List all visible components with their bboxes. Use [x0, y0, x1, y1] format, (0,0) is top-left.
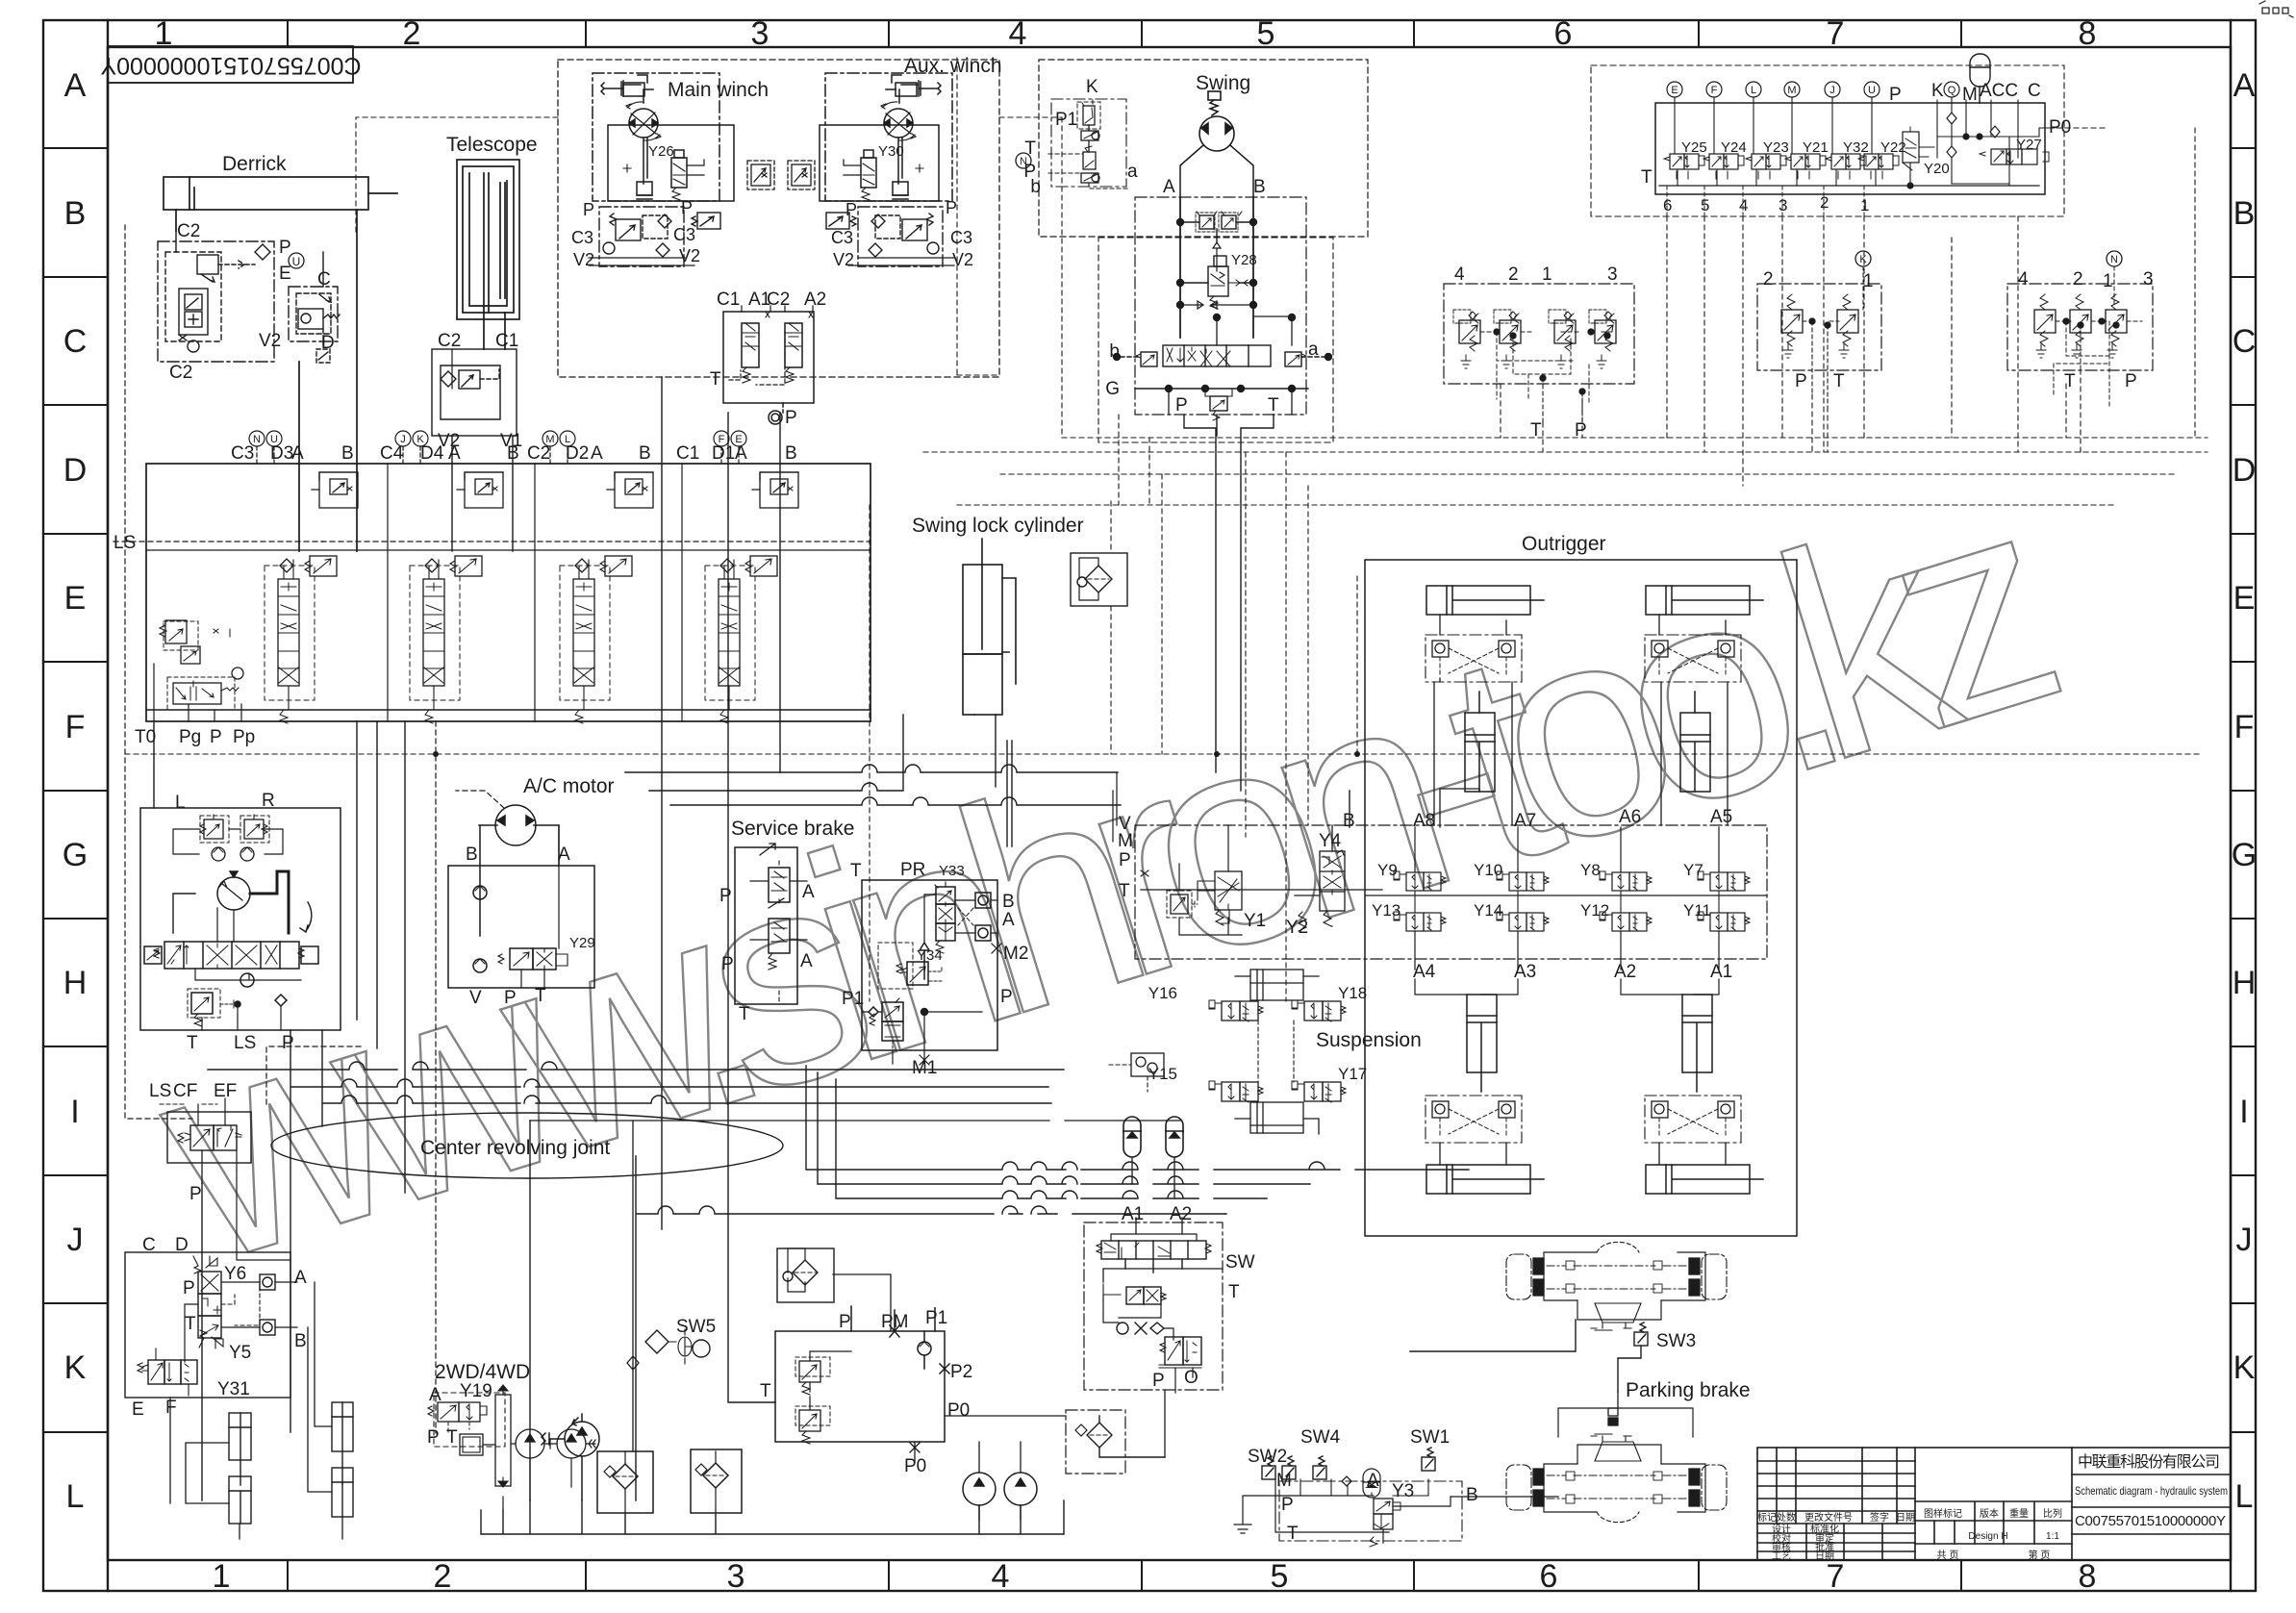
svg-text:F: F — [165, 1398, 177, 1418]
svg-text:C1: C1 — [717, 290, 740, 310]
svg-text:2: 2 — [403, 15, 421, 52]
svg-text:N: N — [253, 434, 261, 445]
svg-text:M1: M1 — [912, 1058, 937, 1078]
svg-text:V2: V2 — [952, 250, 973, 269]
svg-text:SW5: SW5 — [676, 1317, 716, 1337]
steering pump unit — [140, 808, 341, 1030]
aux winch — [820, 73, 952, 201]
main pass-through wires — [154, 542, 1469, 1500]
svg-text:J: J — [400, 434, 406, 445]
svg-text:O: O — [1184, 1368, 1198, 1388]
svg-text:Aux. winch: Aux. winch — [904, 55, 1002, 77]
svg-text:P: P — [1119, 850, 1131, 870]
svg-text:E: E — [2233, 580, 2256, 617]
svg-text:J: J — [2236, 1222, 2253, 1258]
svg-text:A8: A8 — [1413, 811, 1435, 831]
svg-text:P: P — [839, 1312, 851, 1332]
svg-text:A: A — [1367, 1471, 1379, 1491]
svg-text:1: 1 — [1863, 271, 1874, 291]
svg-text:Schematic diagram - hydraulic: Schematic diagram - hydraulic system — [2075, 1484, 2228, 1498]
svg-text:I: I — [2239, 1094, 2248, 1130]
svg-text:P1: P1 — [925, 1308, 947, 1328]
valve Y28 — [1214, 256, 1226, 266]
svg-text:SW4: SW4 — [1300, 1427, 1341, 1448]
svg-text:SW: SW — [1225, 1252, 1255, 1273]
manifold spool sections — [265, 472, 358, 723]
svg-text:A: A — [429, 1385, 442, 1405]
K pilot box — [1016, 99, 1127, 189]
svg-text:P: P — [1175, 395, 1188, 416]
winch motor M2 — [884, 109, 913, 138]
valve Y22 — [1858, 154, 1899, 179]
outrigger jack cylinder upper right — [1680, 692, 1710, 792]
valve Y30 — [861, 158, 876, 188]
svg-text:T0: T0 — [135, 727, 156, 747]
svg-text:5: 5 — [1701, 196, 1709, 214]
svg-text:C4: C4 — [380, 443, 404, 464]
svg-text:M: M — [1276, 1471, 1292, 1491]
relief group 2 (2 K 1) — [1757, 251, 1881, 407]
swing pilot enclosure — [1039, 60, 1368, 237]
svg-text:P: P — [210, 727, 222, 747]
svg-text:K: K — [64, 1349, 87, 1386]
winch brake cylinder — [601, 81, 641, 96]
mid valve — [1126, 1287, 1144, 1304]
swing lock cylinder — [963, 539, 1016, 787]
K Q M ACC C drops — [1937, 97, 2018, 184]
svg-text:E: E — [279, 264, 291, 284]
svg-text:2: 2 — [1820, 193, 1829, 212]
valve Y4 — [1295, 825, 1345, 926]
svg-text:8: 8 — [2079, 15, 2097, 52]
pressure switch SW3 — [1634, 1323, 1648, 1346]
svg-text:E: E — [1671, 85, 1678, 96]
brake charge block PR Y33 Y34 — [862, 880, 1001, 1065]
svg-text:Y9: Y9 — [1377, 861, 1398, 879]
svg-text:K: K — [1086, 77, 1098, 97]
svg-text:PM: PM — [881, 1312, 909, 1332]
svg-text:T: T — [1228, 1282, 1240, 1302]
svg-text:L: L — [66, 1478, 85, 1515]
left pump + filters — [542, 1121, 742, 1513]
svg-text:T: T — [1268, 395, 1279, 416]
relief valve 1 — [1549, 310, 1576, 368]
svg-text:Outrigger: Outrigger — [1522, 533, 1606, 555]
svg-text:A: A — [800, 951, 813, 971]
svg-text:P: P — [1281, 1495, 1294, 1515]
svg-text:A1: A1 — [1122, 1204, 1144, 1224]
svg-text:C2: C2 — [527, 443, 550, 464]
svg-text:比列: 比列 — [2043, 1507, 2062, 1520]
svg-text:J: J — [67, 1222, 84, 1258]
main winch — [593, 73, 734, 201]
svg-text:5: 5 — [1271, 1558, 1289, 1595]
svg-text:4: 4 — [1454, 265, 1465, 285]
svg-text:PR: PR — [900, 860, 925, 880]
svg-text:C00755701510000000Y: C00755701510000000Y — [2075, 1513, 2226, 1529]
svg-text:H: H — [63, 965, 88, 1001]
svg-text:Y10: Y10 — [1474, 861, 1502, 879]
svg-text:1: 1 — [213, 1558, 231, 1595]
svg-text:Y26: Y26 — [648, 143, 674, 160]
outrigger horizontal cylinder RL — [1426, 1165, 1544, 1194]
svg-text:C3: C3 — [231, 443, 254, 464]
valve Y31 — [148, 1360, 164, 1384]
svg-text:P: P — [2125, 371, 2137, 391]
pressure switch SW2 — [1262, 1456, 1275, 1479]
svg-text:C: C — [142, 1235, 156, 1255]
svg-text:T: T — [760, 1381, 771, 1401]
D-row pilot dashed bus — [356, 58, 2208, 1001]
svg-text:B: B — [1466, 1485, 1478, 1505]
valve Y29 — [510, 948, 533, 970]
svg-text:Y5: Y5 — [229, 1343, 251, 1363]
svg-text:T: T — [535, 986, 546, 1006]
corner printer marks — [2259, 1, 2293, 17]
front axle (parking brake) — [1506, 1434, 1727, 1523]
telescope cylinder — [457, 160, 519, 349]
svg-text:ACC: ACC — [1980, 81, 2018, 101]
svg-text:Y8: Y8 — [1580, 861, 1601, 879]
svg-text:T: T — [446, 1427, 458, 1448]
svg-text:D4: D4 — [420, 443, 444, 464]
svg-text:A1: A1 — [1710, 962, 1732, 982]
svg-text:C3: C3 — [673, 225, 695, 244]
svg-text:Y7: Y7 — [1683, 861, 1703, 879]
svg-text:A5: A5 — [1710, 807, 1732, 827]
svg-text:P2: P2 — [950, 1362, 972, 1382]
svg-text:图样标记: 图样标记 — [1924, 1507, 1962, 1520]
svg-text:处数: 处数 — [1777, 1511, 1796, 1524]
svg-text:1: 1 — [2103, 271, 2113, 291]
left section grid — [1757, 1460, 1915, 1462]
svg-text:4: 4 — [2018, 269, 2029, 290]
svg-text:A: A — [591, 443, 603, 464]
valve Y32 — [1826, 154, 1866, 179]
svg-text:M: M — [545, 434, 554, 445]
main manifold block (rows D-F) — [146, 464, 870, 721]
pilot line + check — [924, 895, 936, 943]
svg-text:Service brake: Service brake — [731, 818, 854, 840]
svg-text:2: 2 — [1508, 265, 1519, 285]
svg-text:P: P — [946, 198, 957, 217]
suspension valves — [1109, 970, 1346, 1134]
svg-text:签字: 签字 — [1870, 1511, 1889, 1524]
svg-text:Q: Q — [1948, 85, 1956, 96]
svg-text:R: R — [262, 791, 275, 811]
svg-text:P: P — [681, 198, 693, 217]
top-right pilot valve block — [1591, 65, 2064, 216]
svg-text:V2: V2 — [679, 246, 700, 265]
svg-text:8: 8 — [2079, 1558, 2097, 1595]
svg-text:N: N — [2110, 254, 2118, 265]
svg-text:B: B — [1253, 177, 1266, 197]
valve Y18 — [1292, 1000, 1346, 1021]
svg-text:G: G — [2232, 837, 2257, 873]
derrick lock valve block — [158, 231, 340, 363]
svg-text:7: 7 — [1827, 15, 1845, 52]
svg-text:C: C — [63, 323, 88, 360]
svg-text:B: B — [2233, 195, 2256, 232]
svg-text:标记: 标记 — [1757, 1512, 1777, 1524]
center revolving joint ellipse — [271, 1113, 783, 1178]
valve Y15 — [1209, 1081, 1263, 1102]
svg-text:Telescope: Telescope — [446, 134, 538, 156]
svg-text:SW1: SW1 — [1410, 1427, 1450, 1448]
svg-text:版本: 版本 — [1980, 1507, 1999, 1520]
svg-text:6: 6 — [1663, 196, 1672, 214]
svg-text:Y34: Y34 — [917, 947, 943, 964]
svg-text:P1: P1 — [842, 989, 864, 1009]
svg-text:Y14: Y14 — [1474, 901, 1502, 920]
middle section rows — [1915, 1520, 2072, 1522]
relief valve 2 — [1494, 310, 1521, 368]
svg-text:C2: C2 — [169, 363, 192, 383]
svg-text:SW3: SW3 — [1656, 1331, 1696, 1351]
svg-text:F: F — [65, 709, 86, 745]
svg-text:6: 6 — [1540, 1558, 1558, 1595]
svg-text:P: P — [504, 988, 517, 1008]
fan motor SW5 — [645, 1329, 710, 1364]
svg-text:C: C — [317, 269, 331, 290]
svg-text:B: B — [785, 443, 797, 464]
svg-text:P: P — [1152, 1371, 1165, 1391]
svg-text:Y18: Y18 — [1338, 984, 1367, 1002]
svg-text:A2: A2 — [804, 290, 826, 310]
svg-text:D: D — [63, 452, 88, 489]
svg-text:Y20: Y20 — [1924, 161, 1950, 177]
svg-text:P: P — [719, 886, 732, 906]
svg-text:C3: C3 — [950, 228, 972, 247]
svg-text:Y15: Y15 — [1148, 1065, 1177, 1083]
svg-text:3: 3 — [751, 15, 770, 52]
svg-text:Y4: Y4 — [1319, 831, 1342, 851]
svg-text:P: P — [279, 238, 291, 258]
pressure reducing P1 — [882, 1002, 903, 1021]
svg-text:A2: A2 — [1614, 962, 1636, 982]
svg-text:A4: A4 — [1413, 962, 1436, 982]
svg-text:SW2: SW2 — [1248, 1447, 1287, 1467]
svg-text:T: T — [1287, 1524, 1299, 1544]
svg-text:Y16: Y16 — [1148, 984, 1177, 1002]
svg-text:C3: C3 — [571, 228, 593, 247]
svg-text:B: B — [341, 443, 354, 464]
svg-text:Y1: Y1 — [1244, 911, 1266, 931]
horizontal buses with hoops — [208, 1062, 1064, 1070]
svg-text:Center revolving joint: Center revolving joint — [420, 1137, 610, 1159]
svg-text:D: D — [2233, 452, 2257, 489]
svg-text:Swing: Swing — [1196, 72, 1250, 94]
valve Y12 — [1600, 912, 1652, 931]
derrick cylinder — [164, 177, 397, 551]
LS line — [114, 541, 870, 542]
relief valve group3-2 — [2070, 294, 2091, 358]
svg-text:Y33: Y33 — [939, 863, 965, 879]
svg-text:A: A — [291, 443, 304, 464]
valve Y27 — [1991, 149, 2006, 164]
valve Y26 — [671, 158, 687, 188]
svg-text:第 页: 第 页 — [2029, 1549, 2051, 1561]
brake valves SW2 SW4 Y3 — [1234, 1448, 1558, 1547]
svg-text:A: A — [1002, 910, 1015, 930]
svg-text:P: P — [845, 200, 857, 219]
inter-winch throttle valves — [747, 161, 815, 189]
svg-text:中联重科股份有限公司: 中联重科股份有限公司 — [2078, 1453, 2220, 1471]
svg-text:3: 3 — [2143, 269, 2154, 290]
tank return rail — [481, 1500, 1064, 1534]
valve Y20 — [1903, 132, 1919, 163]
valve Y17 — [1292, 1081, 1346, 1102]
valve Y13 — [1394, 912, 1446, 931]
rear axle — [1506, 1242, 1727, 1330]
svg-text:P: P — [282, 1033, 294, 1053]
svg-text:M: M — [1962, 85, 1978, 105]
svg-text:A2: A2 — [1170, 1204, 1192, 1224]
pilot solenoid valves row — [1659, 54, 2107, 216]
svg-text:U: U — [270, 434, 278, 445]
pressure switch M — [1282, 1456, 1296, 1479]
svg-text:G: G — [63, 837, 88, 873]
long dashed pilot drain bus — [125, 238, 2203, 1001]
svg-text:Design H: Design H — [1968, 1531, 2007, 1542]
svg-text:CF: CF — [173, 1081, 197, 1101]
valve Y8 — [1600, 871, 1652, 891]
svg-text:Parking brake: Parking brake — [1626, 1379, 1751, 1401]
svg-text:P0: P0 — [947, 1400, 970, 1421]
svg-text:C1: C1 — [495, 331, 518, 351]
svg-text:A: A — [64, 67, 87, 104]
svg-text:7: 7 — [1827, 1558, 1845, 1595]
valve Y33 — [936, 887, 955, 904]
P0 filter unit — [1066, 1390, 1165, 1474]
outrigger lock block FL — [1426, 635, 1522, 682]
aux winch counterbalance block — [826, 207, 954, 266]
right column rows — [2072, 1474, 2231, 1475]
valve Y23 — [1746, 154, 1786, 179]
relief Y34 — [907, 962, 928, 985]
outrigger wires — [1434, 615, 1732, 1165]
svg-text:K: K — [2233, 1349, 2256, 1386]
svg-text:EF: EF — [214, 1081, 237, 1101]
drawing code box top-left (rotated 180) — [108, 46, 353, 83]
pressure switch SW4 — [1313, 1456, 1326, 1479]
svg-text:6: 6 — [1554, 15, 1573, 52]
outputs B A — [975, 893, 991, 908]
winches dashed enclosure — [558, 60, 999, 377]
transport cylinders — [170, 1282, 353, 1524]
svg-text:A: A — [558, 844, 570, 865]
svg-text:L: L — [565, 434, 570, 445]
svg-text:Y13: Y13 — [1372, 901, 1400, 920]
main winch counterbalance block — [589, 207, 720, 266]
svg-text:B: B — [507, 443, 519, 464]
svg-text:Y6: Y6 — [224, 1264, 246, 1284]
Y9 Y10 Y8 Y7 solenoid valves — [1141, 827, 1767, 995]
svg-text:5: 5 — [1257, 15, 1275, 52]
svg-text:工艺: 工艺 — [1772, 1550, 1791, 1562]
telescope valve block — [432, 349, 517, 551]
manifold section D4 — [410, 472, 503, 723]
svg-text:A: A — [1163, 177, 1175, 197]
svg-text:Suspension: Suspension — [1316, 1029, 1422, 1051]
outrigger frame — [1365, 560, 1797, 1236]
outrigger control dash-dot box — [1135, 825, 1767, 959]
outrigger lock block FR — [1645, 635, 1741, 682]
filter unit (swing lock) — [1071, 553, 1127, 606]
valve Y24 — [1703, 154, 1744, 179]
svg-text:M: M — [1118, 831, 1133, 851]
priority valve LS CF EF — [160, 1098, 251, 1183]
svg-text:Y3: Y3 — [1392, 1481, 1414, 1501]
swing motor — [1180, 91, 1253, 338]
svg-text:V2: V2 — [259, 331, 281, 351]
svg-text:V: V — [469, 988, 482, 1008]
valve Y7 — [1698, 871, 1750, 891]
svg-text:Pp: Pp — [233, 727, 255, 747]
svg-text:4: 4 — [1739, 196, 1748, 214]
svg-text:P: P — [189, 1184, 202, 1204]
svg-text:P: P — [1795, 371, 1807, 391]
svg-text:C: C — [2233, 323, 2257, 360]
supply drops — [1440, 682, 1726, 713]
svg-text:J: J — [1829, 85, 1835, 96]
svg-text:Y19: Y19 — [460, 1381, 492, 1401]
svg-text:E: E — [64, 580, 87, 617]
svg-text:T: T — [739, 1004, 750, 1024]
svg-text:B: B — [466, 844, 478, 865]
svg-text:1: 1 — [1860, 196, 1869, 214]
svg-text:T: T — [1833, 371, 1845, 391]
svg-text:L: L — [175, 793, 186, 813]
svg-text:2: 2 — [434, 1558, 452, 1595]
svg-text:G: G — [1105, 379, 1120, 399]
svg-text:2: 2 — [2073, 269, 2083, 290]
svg-text:F: F — [1711, 85, 1718, 96]
svg-text:重量: 重量 — [2009, 1507, 2029, 1520]
svg-text:Y31: Y31 — [217, 1379, 250, 1399]
svg-text:A: A — [802, 882, 815, 902]
svg-text:P: P — [1889, 85, 1902, 105]
outrigger horizontal cylinder FR — [1646, 586, 1763, 615]
valve Y10 — [1497, 871, 1549, 891]
svg-text:A: A — [2233, 67, 2256, 104]
accumulator on pilot block — [1970, 54, 1990, 87]
svg-text:P: P — [583, 200, 594, 219]
svg-text:U: U — [1868, 85, 1876, 96]
manifold inlet section — [146, 620, 870, 721]
svg-text:U: U — [292, 255, 301, 268]
svg-text:a: a — [1308, 340, 1319, 360]
manifold section D2 — [560, 472, 653, 723]
outrigger lock block RL — [1426, 1096, 1522, 1143]
SW valve block A1 A2 — [1084, 1218, 1223, 1393]
outrigger horizontal cylinder FL — [1426, 586, 1544, 615]
valve Y11 — [1698, 912, 1750, 931]
A/C motor — [448, 791, 594, 988]
svg-text:B: B — [639, 443, 651, 464]
svg-text:P: P — [427, 1427, 440, 1448]
title block — [1757, 1448, 2231, 1560]
svg-text:Y27: Y27 — [2016, 137, 2042, 153]
svg-text:A6: A6 — [1619, 807, 1641, 827]
svg-text:T: T — [185, 1314, 196, 1334]
svg-text:3: 3 — [1779, 196, 1787, 214]
svg-text:A/C motor: A/C motor — [523, 775, 615, 797]
svg-text:N: N — [1020, 156, 1027, 167]
svg-text:T: T — [710, 369, 721, 390]
svg-text:日期: 日期 — [1815, 1550, 1834, 1562]
svg-text:M2: M2 — [1003, 944, 1028, 964]
